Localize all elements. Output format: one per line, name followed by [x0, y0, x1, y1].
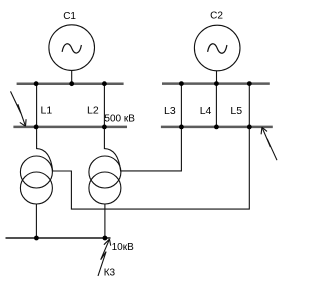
svg-text:500 кВ: 500 кВ [104, 114, 135, 125]
svg-text:L4: L4 [200, 105, 212, 117]
svg-text:L3: L3 [164, 105, 176, 117]
svg-text:L5: L5 [230, 105, 242, 117]
svg-text:10кВ: 10кВ [112, 242, 134, 253]
svg-text:L1: L1 [41, 105, 53, 117]
svg-text:C1: C1 [63, 11, 76, 22]
svg-text:L2: L2 [87, 105, 99, 117]
svg-text:C2: C2 [210, 11, 223, 22]
svg-text:К3: К3 [104, 268, 116, 279]
